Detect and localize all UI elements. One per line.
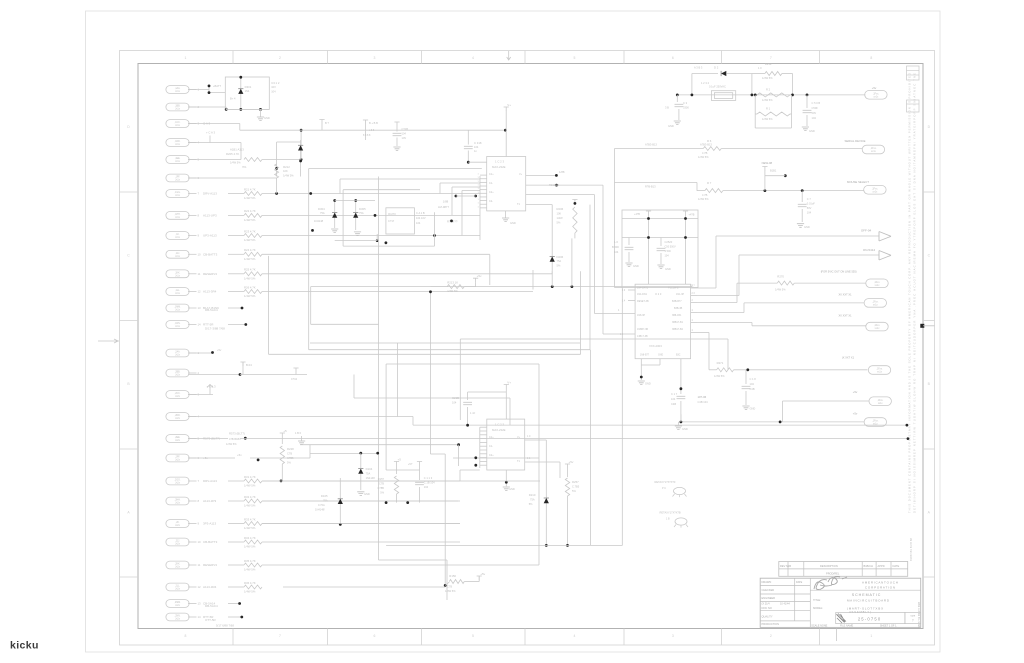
svg-text:B + B B: B + B B <box>369 121 378 125</box>
connector J1-11 <box>166 270 189 278</box>
svg-text:RETAXY17X?X?B: RETAXY17X?X?B <box>660 511 681 515</box>
svg-text:S C H E M A T I C: S C H E M A T I C <box>852 593 881 597</box>
svg-text:,1Fxx.: ,1Fxx. <box>872 302 879 304</box>
wire rail B+ <box>240 129 506 131</box>
cluster R15x <box>394 462 399 466</box>
svg-text:DRAWN: DRAWN <box>762 580 772 584</box>
svg-text:4 7B: 4 7B <box>702 193 708 197</box>
resistor R257 vertical <box>565 464 570 468</box>
svg-text:GND: GND <box>665 267 671 271</box>
op-amp U2 <box>487 419 525 470</box>
wire serial <box>615 148 704 150</box>
junction <box>474 456 477 459</box>
svg-text:,1Fxx.: ,1Fxx. <box>872 421 879 423</box>
svg-text:C 1 1 3: C 1 1 3 <box>424 476 433 480</box>
svg-text:D301: D301 <box>245 85 252 89</box>
svg-text:DB-5AC4: DB-5AC4 <box>205 308 218 312</box>
wire bus J <box>269 353 581 355</box>
svg-text:A113-3R4: A113-3R4 <box>203 585 217 589</box>
svg-text:Jx2x: Jx2x <box>175 396 181 398</box>
svg-text:3B8-1B1: 3B8-1B1 <box>672 314 682 317</box>
svg-text:B.04: B.04 <box>246 363 252 367</box>
wire mouse feed <box>615 182 698 184</box>
svg-text:V+: V+ <box>519 173 523 176</box>
part number box <box>836 613 905 624</box>
center marker right <box>920 324 924 328</box>
connector J1-5 <box>166 156 189 164</box>
svg-text:1/88: 1/88 <box>559 170 565 174</box>
svg-text:Jx2x: Jx2x <box>175 619 181 621</box>
svg-text:1/4W 5%: 1/4W 5% <box>447 289 458 293</box>
wire row17 <box>188 394 213 396</box>
svg-text:7K1: 7K1 <box>242 165 247 169</box>
svg-text:+ C A 3: + C A 3 <box>207 385 217 389</box>
svg-text:DOC NO: DOC NO <box>762 606 772 610</box>
svg-text:3BB17-B1: 3BB17-B1 <box>672 321 684 324</box>
svg-text:1 2 3 4: 1 2 3 4 <box>701 81 709 85</box>
connector J1-7 <box>166 190 189 198</box>
svg-text:PROD/REL: PROD/REL <box>826 572 840 576</box>
center marker left <box>98 339 119 343</box>
ground D305 <box>354 232 361 236</box>
connector J2-11 <box>166 561 189 569</box>
svg-text:1N4148: 1N4148 <box>314 219 324 223</box>
wire <box>228 273 244 275</box>
connector J2-3 <box>166 391 189 399</box>
svg-text:2 5 - 0 7 5 0: 2 5 - 0 7 5 0 <box>858 617 881 622</box>
svg-text:104: 104 <box>402 132 407 136</box>
wire rail A <box>622 218 698 220</box>
connector J1-12 <box>166 288 189 296</box>
svg-text:C7B: C7B <box>379 482 384 486</box>
connector J1-13 <box>166 304 189 312</box>
svg-text:C4B: C4B <box>750 387 755 391</box>
svg-text:D104: D104 <box>366 467 373 471</box>
svg-text:DATE: DATE <box>796 581 803 584</box>
svg-text:GND: GND <box>804 225 810 229</box>
svg-text:O 2 3: O 2 3 <box>655 292 662 296</box>
svg-text:1N4148: 1N4148 <box>366 476 376 480</box>
svg-text:,2CC.: ,2CC. <box>175 393 181 395</box>
svg-text:3: 3 <box>374 56 376 60</box>
svg-text:R?B-B13: R?B-B13 <box>645 185 656 189</box>
svg-text:PRODUCTION: PRODUCTION <box>762 622 780 626</box>
svg-text:C1-: C1- <box>489 182 493 185</box>
wire bus M <box>280 438 908 440</box>
power VCC U1 <box>505 111 507 157</box>
svg-text:Jx1x: Jx1x <box>175 310 181 312</box>
svg-text:1N4: 1N4 <box>245 89 250 93</box>
wire fan4 <box>697 332 709 334</box>
ground C1B <box>625 263 632 267</box>
svg-text:12: 12 <box>198 290 202 294</box>
wire U4 pin feed B <box>526 184 603 186</box>
svg-text:R21 4.7K: R21 4.7K <box>244 187 256 191</box>
svg-text:C4B: C4B <box>671 402 676 406</box>
svg-text:1/4W 5%: 1/4W 5% <box>762 76 773 80</box>
connector outA <box>865 91 887 100</box>
svg-text:1 B 0: 1 B 0 <box>295 431 302 435</box>
svg-text:1N1-3P: 1N1-3P <box>676 293 685 296</box>
svg-text:SIZE: SIZE <box>910 616 915 618</box>
svg-text:GND: GND <box>264 116 270 120</box>
capacitor C318 <box>467 130 469 144</box>
svg-text:,1EE.: ,1EE. <box>175 158 181 160</box>
svg-text:REV S1B: REV S1B <box>780 564 791 568</box>
connector J2-7 <box>166 477 189 485</box>
svg-text:104: 104 <box>812 116 817 120</box>
svg-text:+5v: +5v <box>477 274 482 278</box>
svg-text:Jx2x: Jx2x <box>175 418 181 420</box>
svg-text:+5v: +5v <box>569 460 574 464</box>
svg-text:Jx1x: Jx1x <box>175 161 181 163</box>
svg-text:D 2: D 2 <box>714 66 719 70</box>
svg-text:+5v: +5v <box>480 572 485 576</box>
svg-text:C2-: C2- <box>489 200 493 203</box>
svg-text:OFF-04: OFF-04 <box>861 228 872 232</box>
svg-text:1/4W 5%: 1/4W 5% <box>230 161 241 165</box>
svg-text:R31 4.7K: R31 4.7K <box>244 475 256 479</box>
svg-text:,1Fxx.: ,1Fxx. <box>877 400 884 402</box>
svg-text:XX XXT X1: XX XXT X1 <box>838 293 852 297</box>
svg-text:75A: 75A <box>359 211 364 215</box>
power stub cluster <box>363 120 368 124</box>
svg-text:A7B3-B13: A7B3-B13 <box>645 143 657 147</box>
svg-text:+BATT: +BATT <box>213 84 221 88</box>
svg-text:Jx1x: Jx1x <box>175 109 181 111</box>
connector J1-6 <box>166 174 189 182</box>
svg-text:13: 13 <box>198 306 202 310</box>
power stub <box>473 278 478 282</box>
wire <box>228 253 244 255</box>
box B1 <box>225 77 269 109</box>
svg-text:B1BB 5B1 B17B B8: B1BB 5B1 B17B B8 <box>909 538 913 561</box>
svg-text:,1KK.: ,1KK. <box>175 272 181 274</box>
power stub row16 <box>293 368 298 372</box>
svg-text:?: ? <box>912 619 914 623</box>
box around caps <box>622 210 698 288</box>
svg-text:A 3 B 3: A 3 B 3 <box>694 66 703 70</box>
svg-text:+5v: +5v <box>853 412 858 416</box>
wire row11 <box>262 273 552 275</box>
ground U2 <box>505 470 507 486</box>
cluster C1x <box>417 462 422 466</box>
svg-text:Jx2x: Jx2x <box>175 525 181 527</box>
diode D104 <box>360 453 362 468</box>
wire bus A <box>309 168 482 170</box>
wire bus G <box>430 292 432 454</box>
svg-text:6: 6 <box>672 56 674 60</box>
svg-text:10V: 10V <box>402 136 407 140</box>
wire <box>335 240 378 242</box>
power V+ U2 <box>505 389 507 420</box>
svg-text:FILE NAME: FILE NAME <box>840 624 854 627</box>
svg-text:xx1x: xx1x <box>877 372 883 374</box>
svg-text:GND: GND <box>509 487 515 491</box>
capacitor C21B <box>468 391 507 393</box>
revision table <box>779 562 908 577</box>
svg-text:7: 7 <box>770 56 772 60</box>
svg-text:11: 11 <box>198 272 201 276</box>
svg-text:C1+: C1+ <box>489 173 494 176</box>
connector J2-8 <box>166 497 189 505</box>
svg-text:75A: 75A <box>530 498 535 502</box>
connector out2 <box>864 299 886 308</box>
connector J2-14 <box>166 613 189 621</box>
wire bus K <box>354 397 510 399</box>
svg-text:,1LL.: ,1LL. <box>175 290 180 292</box>
svg-text:,2GG.: ,2GG. <box>174 480 180 482</box>
svg-text:B3B-3B: B3B-3B <box>674 307 683 310</box>
svg-text:3: 3 <box>672 634 674 638</box>
ground D304 <box>331 229 338 233</box>
wire <box>188 89 209 91</box>
svg-text:104: 104 <box>671 397 676 401</box>
svg-text:R22 4.7K: R22 4.7K <box>244 209 256 213</box>
wire <box>721 148 862 150</box>
inner border <box>138 64 923 629</box>
svg-text:1/4W 5%: 1/4W 5% <box>244 218 256 222</box>
svg-text:xx1x: xx1x <box>875 328 881 330</box>
svg-text:1/4W 5%: 1/4W 5% <box>226 442 237 446</box>
svg-text:1/4W 5%: 1/4W 5% <box>244 526 256 530</box>
svg-text:3P3-A113: 3P3-A113 <box>203 522 216 526</box>
svg-text:1N4148!: 1N4148! <box>315 508 325 512</box>
connector J2-13 <box>166 600 189 608</box>
svg-text:C2520: C2520 <box>665 240 673 244</box>
svg-text:V+: V+ <box>507 381 511 385</box>
svg-text:M A I N C I R C U I T B O: M A I N C I R C U I T B O A R D <box>847 598 890 602</box>
node stub <box>208 86 210 93</box>
border zone ticks top <box>232 51 234 64</box>
diode D2 <box>721 71 726 76</box>
svg-text:Jx2x: Jx2x <box>175 440 181 442</box>
svg-text:8 8 8 8: 8 8 8 8 <box>363 134 371 137</box>
wire fan5 <box>783 400 870 402</box>
svg-text:+5v: +5v <box>217 348 222 352</box>
diode D304 <box>334 200 336 228</box>
connector out1 <box>866 279 888 288</box>
connector J1-3 <box>166 120 189 128</box>
svg-text:Jx2x: Jx2x <box>175 544 181 546</box>
diode D206 <box>551 250 553 271</box>
wire loop sides <box>691 74 693 95</box>
svg-text:0.70A: 0.70A <box>318 503 325 507</box>
diode D1 <box>240 77 242 109</box>
svg-text:1/4W 5%: 1/4W 5% <box>244 294 256 298</box>
junction row <box>225 108 228 111</box>
svg-text:D105: D105 <box>321 494 328 498</box>
wire <box>228 235 244 237</box>
barcode logo <box>837 614 847 624</box>
ground <box>260 109 262 117</box>
svg-text:8: 8 <box>185 634 187 638</box>
capacitor C18 <box>745 370 747 384</box>
svg-text:kicku: kicku <box>10 640 39 652</box>
svg-text:DESCRIPTION: DESCRIPTION <box>820 564 838 568</box>
wire <box>210 142 241 144</box>
svg-text:ENGINEER: ENGINEER <box>762 596 776 600</box>
svg-text:R26 4.7K: R26 4.7K <box>244 285 256 289</box>
wire loop bottom <box>755 127 791 129</box>
capacitor C50B <box>806 95 808 108</box>
svg-text:75A: 75A <box>320 211 325 215</box>
svg-text:XXX-2003: XXX-2003 <box>649 344 662 348</box>
svg-text:104: 104 <box>424 485 429 489</box>
svg-text:1/4W 5%: 1/4W 5% <box>244 545 256 549</box>
wire <box>431 286 448 288</box>
wire fan6 <box>681 421 864 423</box>
svg-text:,2AA.: ,2AA. <box>175 351 181 354</box>
svg-text:104 10V: 104 10V <box>416 216 426 220</box>
svg-text:1 500: 1 500 <box>665 250 672 253</box>
svg-text:Jx1x: Jx1x <box>175 180 181 182</box>
power rail stub 1 <box>646 211 651 215</box>
capacitor C21A <box>394 122 399 126</box>
svg-text:2: 2 <box>279 56 281 60</box>
svg-text:xx1x: xx1x <box>873 424 879 426</box>
wire <box>283 586 445 588</box>
svg-text:(X XXT X1: (X XXT X1 <box>842 356 855 360</box>
svg-text:10 41/44: 10 41/44 <box>780 603 790 606</box>
svg-text:C?17: C?17 <box>388 219 395 223</box>
connector J1-1 <box>166 86 189 94</box>
wire bus into U1 <box>479 176 481 240</box>
wire bus B <box>262 253 490 255</box>
svg-text:1/4W 5%: 1/4W 5% <box>244 484 256 488</box>
svg-text:R 7: R 7 <box>707 181 712 185</box>
box K1 <box>711 91 735 101</box>
svg-text:MAX-232E: MAX-232E <box>492 428 506 432</box>
power stub <box>477 576 482 580</box>
svg-text:3300: 3300 <box>683 106 689 110</box>
connector J2-9 <box>166 520 189 528</box>
svg-text:MODEL:: MODEL: <box>813 606 823 610</box>
wire row15 <box>188 352 213 354</box>
svg-text:CB-BATT3: CB-BATT3 <box>203 540 218 544</box>
svg-text:A M E R I C A N T O U C H: A M E R I C A N T O U C H <box>862 581 898 585</box>
wire bus C <box>311 286 692 288</box>
svg-text:SHEET 1 OF 1: SHEET 1 OF 1 <box>880 624 897 627</box>
svg-text:R270: R270 <box>777 274 784 278</box>
svg-text:104: 104 <box>271 89 276 93</box>
svg-text:,2KK.: ,2KK. <box>175 564 181 566</box>
svg-text:GND: GND <box>809 129 815 133</box>
svg-text:,1Fxx.: ,1Fxx. <box>876 369 883 371</box>
stub NEW-08 <box>764 170 766 191</box>
size box <box>905 613 921 624</box>
svg-text:104: 104 <box>416 221 421 225</box>
svg-text:C7B5: C7B5 <box>287 456 294 460</box>
svg-text:50V: 50V <box>812 111 817 115</box>
wire bottom rail <box>386 544 622 546</box>
wire row19 cluster <box>188 438 228 440</box>
svg-text:,1CC.: ,1CC. <box>175 122 181 124</box>
svg-text:1.0: 1.0 <box>614 240 618 244</box>
svg-text:R35 4.7K: R35 4.7K <box>244 559 256 563</box>
wire bus H <box>386 363 539 365</box>
svg-text:14: 14 <box>198 615 202 619</box>
svg-text:+5: +5 <box>283 429 287 433</box>
svg-text:MAX-232E: MAX-232E <box>492 165 506 169</box>
connector J2-12 <box>166 583 189 591</box>
svg-text:1N4-DAT1: 1N4-DAT1 <box>637 287 649 290</box>
title block outer <box>760 578 921 627</box>
svg-text:104: 104 <box>750 382 755 386</box>
svg-text:R213 1K: R213 1K <box>447 280 458 284</box>
ground C3 <box>674 121 681 125</box>
svg-text:Jx1x: Jx1x <box>175 326 181 328</box>
svg-text:,1NN.: ,1NN. <box>175 323 181 325</box>
wire row18 riser <box>397 343 399 417</box>
svg-text:1 nF: 1 nF <box>470 411 476 415</box>
capacitor C1B <box>628 238 630 246</box>
wire row22 <box>262 500 458 502</box>
node row13 <box>228 307 242 309</box>
svg-text:+5v: +5v <box>853 390 858 394</box>
capacitor C17 <box>680 359 682 394</box>
svg-text:104: 104 <box>665 255 670 258</box>
connector J2-1 <box>166 349 189 357</box>
svg-text:Jx1x: Jx1x <box>175 91 181 93</box>
wire row25 <box>262 564 539 566</box>
wire ON-5414 <box>697 295 739 297</box>
svg-text:1N4-DN1: 1N4-DN1 <box>637 293 648 296</box>
svg-text:+5?: +5? <box>408 462 413 466</box>
svg-text:6: 6 <box>374 634 376 638</box>
svg-text:GND: GND <box>682 427 688 431</box>
wire <box>276 178 278 194</box>
svg-text:Jx2x: Jx2x <box>175 589 181 591</box>
wire U2 right2 <box>525 461 560 463</box>
connector J2-4 <box>166 413 189 421</box>
svg-text:C7B: C7B <box>287 452 292 456</box>
main wire <box>677 94 865 96</box>
svg-text:P C: P C <box>662 487 666 490</box>
svg-text:10V: 10V <box>271 85 276 89</box>
svg-text:C.1B 104: C.1B 104 <box>424 481 435 485</box>
wire row23 <box>262 523 460 525</box>
svg-text:A7B3-B13: A7B3-B13 <box>700 142 712 146</box>
diode D305 <box>355 200 357 230</box>
svg-text:Jx1x: Jx1x <box>175 144 181 146</box>
svg-text:104: 104 <box>614 250 619 254</box>
svg-text:TITLE:: TITLE: <box>813 598 821 602</box>
company logo <box>814 577 847 590</box>
svg-text:SERIAL DEVICE: SERIAL DEVICE <box>844 139 865 143</box>
svg-text:xx1x: xx1x <box>871 151 877 153</box>
wire U1 right pin 4 <box>526 204 553 206</box>
ground C17 <box>677 422 679 425</box>
svg-text:Jx2x: Jx2x <box>175 375 181 377</box>
svg-text:4: 4 <box>472 56 474 60</box>
wire <box>228 586 244 588</box>
svg-text:RETAXY1?X?X?0: RETAXY1?X?X?0 <box>655 480 676 484</box>
svg-text:C1+: C1+ <box>489 436 494 439</box>
svg-text:104: 104 <box>452 401 457 405</box>
svg-text:C 7: C 7 <box>807 197 812 201</box>
wire <box>228 541 244 543</box>
svg-text:1/4W 5%: 1/4W 5% <box>714 374 725 378</box>
svg-text:12: 12 <box>198 585 202 589</box>
svg-text:B1B1: B1B1 <box>770 169 777 173</box>
svg-text:1 B: 1 B <box>666 518 670 521</box>
svg-text:,2MM.: ,2MM. <box>174 602 181 604</box>
wire <box>446 560 448 600</box>
ground C7 <box>797 224 804 228</box>
svg-text:Jx1x: Jx1x <box>175 256 181 258</box>
svg-text:R24 4.7K: R24 4.7K <box>244 248 256 252</box>
